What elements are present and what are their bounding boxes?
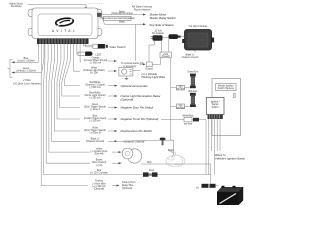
svg-text:30A fuse: 30A fuse: [188, 90, 198, 93]
arrow factory horn: [112, 185, 120, 187]
label yellow: [91, 149, 108, 156]
door lock wire 1: [12, 44, 39, 63]
wire yellow row: [49, 44, 90, 152]
box +12V fused: [160, 52, 171, 58]
svg-text:Factory: Factory: [95, 180, 104, 183]
svg-text:Green: Green: [92, 103, 99, 106]
LED D1: [78, 52, 102, 57]
svg-text:(Siren Output): (Siren Output): [92, 161, 107, 164]
adjust shock sensitivity label: [9, 3, 23, 9]
arrow black: [108, 140, 118, 142]
svg-text:Red/White: Red/White: [90, 81, 102, 84]
bolt B1: [160, 138, 166, 146]
arrow blue/white: [108, 95, 118, 97]
svg-text:(-) 500 mA: (-) 500 mA: [90, 86, 101, 89]
cable P1-P2: [163, 37, 169, 39]
svg-text:White: White: [91, 66, 98, 69]
svg-text:To optional starter kill: To optional starter kill: [121, 62, 143, 65]
wire black ground row: [52, 44, 80, 141]
label key side of starter: [150, 23, 175, 27]
wire from note box down to starter kill node: [135, 25, 137, 62]
svg-text:Chassis Ground: Chassis Ground: [124, 140, 145, 144]
svg-text:Negative Trunk Pin (Optional): Negative Trunk Pin (Optional): [121, 117, 159, 121]
arrow white: [108, 70, 118, 72]
svg-text:Parking Light Wire: Parking Light Wire: [142, 75, 166, 79]
wire white row: [74, 44, 80, 71]
ignition harness box: [212, 79, 241, 136]
main unit mounting ear top-right: [98, 9, 102, 16]
connector J1 on unit bottom: [37, 39, 89, 45]
svg-text:(-) 200 mA: (-) 200 mA: [90, 97, 101, 100]
battery BT1: [217, 186, 243, 205]
svg-text:(Optional): (Optional): [121, 98, 134, 102]
label vehicle parking light wire: [142, 72, 166, 79]
key mark: [234, 94, 236, 98]
wire brown row: [46, 44, 90, 163]
svg-text:(-) 500 mA: (-) 500 mA: [90, 62, 101, 65]
label vehicle ignition harness: [216, 84, 237, 91]
svg-text:LED: LED: [96, 52, 103, 56]
fuse F3: [193, 118, 199, 122]
svg-text:Orange: Orange: [92, 56, 100, 59]
wire violet row: [54, 44, 80, 131]
svg-text:Fuse: Fuse: [149, 170, 155, 172]
svg-text:(These wires are interchangeab: (These wires are interchangeable): [100, 17, 136, 20]
label wires to ignition switch: [215, 153, 246, 160]
label black: [86, 139, 104, 144]
label white: [83, 66, 105, 74]
svg-text:car fuse: car fuse: [176, 106, 185, 109]
connector C3: [182, 114, 194, 125]
plug P2: [169, 34, 185, 39]
title kill starter interrupt harness: [132, 6, 152, 12]
main unit mounting ear top-left: [28, 9, 32, 16]
svg-text:(+) 2A: (+) 2A: [96, 164, 103, 167]
label chassis ground: [124, 140, 145, 144]
arrow violet: [108, 130, 118, 132]
svg-text:2 Wire: 2 Wire: [22, 78, 31, 82]
svg-text:(Parking Light Flash): (Parking Light Flash): [83, 69, 105, 72]
svg-text:car fuse: car fuse: [176, 88, 185, 91]
wire adapter to 12V box right: [168, 39, 170, 52]
label door lock harness: [13, 78, 41, 85]
svg-text:Black (-): Black (-): [186, 55, 195, 57]
svg-text:Green/Grn: Green/Grn: [187, 71, 199, 74]
caption above module: [189, 25, 208, 28]
label to optional starter kill: [121, 62, 143, 68]
connector 30A upper: [176, 85, 185, 90]
label negative door pin switch: [121, 106, 154, 110]
svg-text:(Unlock) (-) 200mA: (Unlock) (-) 200mA: [16, 70, 36, 73]
relay K1 parking light: [119, 68, 141, 80]
label red/white: [85, 81, 105, 89]
svg-text:Positive Door Pin Switch: Positive Door Pin Switch: [121, 129, 153, 133]
svg-text:(+) Door B: (+) Door B: [90, 132, 101, 135]
wire blue row: [57, 44, 80, 119]
svg-text:Factory Horn: Factory Horn: [122, 181, 136, 184]
svg-text:(Chassis Ground): (Chassis Ground): [86, 140, 104, 143]
label brown: [92, 159, 107, 167]
svg-text:Switch: Switch: [212, 106, 220, 109]
svg-text:Violet: Violet: [92, 126, 98, 129]
label black chassis ground (module): [182, 50, 199, 59]
svg-text:Plug-in Harness: Plug-in Harness: [134, 8, 151, 11]
wire branch fuse 30A upper: [171, 87, 190, 89]
relay module M1 (dark box): [182, 30, 214, 51]
wire green row: [60, 44, 81, 108]
svg-text:(Dome Light Output): (Dome Light Output): [84, 94, 105, 97]
arrow brown: [112, 162, 122, 164]
arrow yellow: [112, 151, 122, 153]
svg-text:(Door Trigger Switch): (Door Trigger Switch): [84, 106, 106, 109]
svg-text:Negative Door Pin Switch: Negative Door Pin Switch: [121, 106, 154, 110]
battery fuse F2: [196, 184, 219, 190]
fuse F1: [143, 170, 158, 177]
wire 12v fused down: [171, 58, 174, 140]
svg-text:(Instant Trigger Input): (Instant Trigger Input): [84, 117, 106, 120]
wire plug to fuse node: [149, 41, 155, 62]
svg-text:Chassis Ground: Chassis Ground: [182, 56, 199, 59]
fuse F5 lower: [188, 90, 198, 107]
Avital logo: [52, 17, 77, 33]
svg-text:(Fused): (Fused): [162, 56, 170, 58]
label negative trunk pin: [121, 117, 159, 121]
svg-text:(Violet wire w/ stripe): (Violet wire w/ stripe): [111, 12, 133, 15]
svg-text:H2 Door Lock Harness: H2 Door Lock Harness: [13, 81, 41, 85]
svg-text:(+) Ignition Input: (+) Ignition Input: [91, 150, 108, 153]
diode D2 node: [140, 58, 161, 71]
valet switch S1: [93, 44, 126, 49]
wire trunk row to fuse F3: [161, 120, 206, 175]
svg-text:(Lock) (-) 200mA: (Lock) (-) 200mA: [17, 59, 35, 62]
chassis grounding illustration: [166, 151, 185, 166]
label positive door pin switch: [121, 129, 153, 133]
wire adapter to 12V box left: [161, 41, 163, 52]
connector 30A lower: [176, 104, 185, 109]
wire blue/white row: [62, 44, 80, 96]
label blue/white: [84, 91, 105, 99]
wire branch fuse 30A lower: [171, 105, 190, 107]
label 12 volt adapter: [152, 30, 164, 36]
label violet: [84, 126, 106, 134]
svg-text:Blue/White: Blue/White: [89, 91, 101, 94]
svg-text:Relay Wire: Relay Wire: [122, 184, 134, 187]
label blue: [84, 115, 106, 122]
svg-text:Starter: Starter: [212, 103, 219, 106]
wire shock sensitivity pointer: [28, 4, 104, 10]
svg-text:DC Adapter: DC Adapter: [152, 32, 164, 35]
label factory horn relay: [122, 181, 136, 190]
svg-text:Adjust Shock: Adjust Shock: [9, 3, 23, 6]
plug P1: [151, 35, 163, 41]
bracket door lock harness: [8, 60, 13, 78]
note box interchangeable wires: [100, 16, 136, 20]
control unit U1 outer case: [32, 8, 98, 39]
label black wire to chassis: [168, 150, 175, 152]
wire orange row: [79, 44, 82, 62]
label factory horn: [92, 180, 106, 191]
label green: [84, 103, 106, 111]
svg-text:Switch Harness: Switch Harness: [218, 87, 235, 90]
ignition wires down: [209, 119, 220, 175]
label orange: [84, 56, 108, 64]
fuse F4 upper: [187, 71, 199, 89]
svg-text:(+) 10A: (+) 10A: [90, 72, 98, 75]
label starter motor: [150, 13, 177, 20]
connector J2 on unit right side: [97, 13, 102, 17]
svg-text:(Diode): (Diode): [145, 68, 153, 70]
arrow green: [108, 107, 118, 109]
svg-text:(Ground When Armed): (Ground When Armed): [84, 59, 108, 62]
svg-text:(Door Trigger Switch): (Door Trigger Switch): [84, 129, 106, 132]
wire starter kill 1: [102, 11, 147, 15]
arrow red/white: [108, 85, 118, 87]
svg-text:(-) 200 mA: (-) 200 mA: [90, 120, 101, 123]
main unit mounting ear bottom-right: [98, 28, 102, 35]
siren SP1: [120, 148, 142, 163]
svg-text:White/Blue: White/Blue: [182, 114, 194, 117]
svg-text:(See #4): (See #4): [95, 154, 104, 156]
label interior light relay: [121, 94, 161, 101]
label optional accessories: [121, 84, 149, 88]
svg-text:AVITAL: AVITAL: [52, 29, 77, 33]
svg-text:(Channel 2 Output): (Channel 2 Output): [85, 84, 105, 87]
label red: [90, 170, 108, 175]
arrow blue: [108, 118, 118, 120]
svg-text:Starter Relay Switch: Starter Relay Switch: [150, 16, 177, 20]
svg-text:Vehicle's Ignition Switch: Vehicle's Ignition Switch: [215, 156, 245, 160]
svg-text:Kill Starter Interrupt: Kill Starter Interrupt: [132, 6, 152, 9]
door lock wire 2: [12, 44, 42, 74]
svg-text:Ignition /: Ignition /: [211, 101, 220, 104]
valet switch wires: [83, 44, 93, 47]
svg-text:(+/-) 200 mA: (+/-) 200 mA: [92, 185, 105, 188]
wire red/white row: [65, 44, 81, 86]
svg-text:(Optional): (Optional): [122, 187, 132, 190]
svg-text:Black: Black: [119, 21, 126, 23]
svg-text:Car Alarm Module: Car Alarm Module: [189, 25, 208, 28]
svg-text:Valet Switch: Valet Switch: [109, 45, 126, 49]
svg-text:(-) Horn Wire: (-) Horn Wire: [92, 182, 106, 185]
svg-text:Sensitivity: Sensitivity: [11, 5, 22, 8]
wire factory horn row: [41, 44, 88, 186]
svg-text:(Optional): (Optional): [94, 188, 104, 191]
svg-text:(+) 12V Constant: (+) 12V Constant: [90, 171, 108, 174]
LED wire: [77, 44, 78, 54]
svg-text:(+): (+): [196, 187, 199, 189]
main unit mounting ear bottom-left: [28, 28, 32, 35]
svg-text:Optional Accessories: Optional Accessories: [121, 84, 149, 88]
svg-text:Red: Red: [147, 162, 152, 164]
wire chassis ground to bolt: [118, 140, 174, 154]
svg-text:Key Side of Starter: Key Side of Starter: [150, 23, 175, 27]
ignition switch SW1: [206, 98, 224, 120]
wire starter kill 2: [102, 16, 147, 25]
arrow orange: [108, 60, 118, 62]
svg-text:Brown: Brown: [96, 159, 103, 162]
wire red 12v row: [44, 44, 211, 175]
svg-text:(-) Door A: (-) Door A: [90, 108, 101, 111]
wire siren red to battery: [141, 162, 211, 183]
svg-text:car fuse: car fuse: [184, 123, 193, 126]
